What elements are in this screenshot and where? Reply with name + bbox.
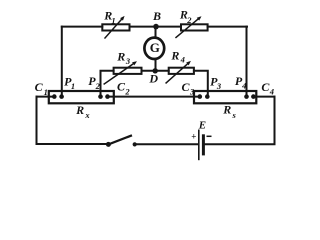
terminal C3 dot bbox=[198, 94, 203, 99]
wire galvanometer to node D bbox=[155, 59, 157, 71]
svg-text:4: 4 bbox=[241, 81, 246, 91]
wire rail R3 to R4 through node D bbox=[142, 70, 169, 72]
resistor R1 body bbox=[102, 24, 129, 30]
arrowhead of R2 arrow bbox=[197, 16, 202, 20]
wire top-right segment R2 to P4 corner bbox=[208, 26, 247, 28]
label P4 bbox=[235, 74, 246, 91]
svg-text:1: 1 bbox=[111, 15, 115, 25]
svg-text:s: s bbox=[232, 110, 237, 120]
label R2 bbox=[179, 8, 192, 25]
terminal P2 dot bbox=[98, 94, 103, 99]
wire C1 stub bbox=[37, 96, 55, 98]
battery minus sign bbox=[207, 135, 212, 137]
arrowhead of R4 arrow bbox=[186, 61, 191, 66]
resistor R3 body bbox=[114, 68, 142, 74]
resistor R1 arrow bbox=[105, 18, 123, 38]
galvanometer G body bbox=[144, 38, 164, 59]
switch contact dot bbox=[133, 142, 137, 146]
arrowhead of R3 arrow bbox=[132, 61, 137, 65]
svg-text:2: 2 bbox=[124, 86, 130, 96]
svg-text:3: 3 bbox=[189, 87, 195, 97]
svg-text:R: R bbox=[222, 103, 231, 117]
terminal C1 dot bbox=[52, 94, 57, 99]
arrowhead of R1 arrow bbox=[120, 16, 124, 21]
wire left drop C1 to bottom rail bbox=[36, 97, 38, 144]
svg-text:R: R bbox=[170, 48, 179, 62]
svg-text:4: 4 bbox=[269, 87, 274, 97]
svg-text:R: R bbox=[116, 49, 125, 63]
resistor R3 arrow bbox=[104, 63, 135, 84]
label C4 bbox=[261, 80, 274, 97]
label Rs bbox=[222, 103, 236, 120]
label R4 bbox=[170, 48, 184, 64]
wire bottom-left segment to switch bbox=[37, 143, 109, 145]
wire right drop C4 to bottom rail bbox=[274, 97, 276, 144]
wire switch to battery bbox=[135, 143, 198, 145]
label R1 bbox=[103, 8, 115, 25]
wire C2 to C3 bbox=[108, 96, 200, 98]
battery E negative plate (short thick) bbox=[202, 136, 205, 154]
wire P4 vertical (top-right corner down to P4 terminal) bbox=[246, 27, 248, 97]
svg-text:C: C bbox=[35, 80, 44, 94]
label C1 bbox=[35, 80, 48, 97]
svg-text:R: R bbox=[75, 103, 84, 117]
wire B to galvanometer bbox=[155, 27, 157, 38]
switch lever bbox=[108, 136, 130, 145]
svg-text:E: E bbox=[198, 119, 206, 131]
resistor R4 body bbox=[169, 68, 194, 74]
svg-text:3: 3 bbox=[216, 81, 222, 91]
svg-text:2: 2 bbox=[186, 15, 192, 25]
terminal P4 dot bbox=[244, 94, 249, 99]
terminal C2 dot bbox=[105, 94, 110, 99]
wire R4 to P3 vertical bbox=[194, 71, 208, 97]
resistor R4 arrow bbox=[166, 63, 189, 83]
wire battery to right corner bbox=[205, 143, 275, 145]
label Rx bbox=[75, 103, 90, 120]
resistor R2 arrow bbox=[176, 18, 200, 38]
svg-text:3: 3 bbox=[125, 56, 131, 66]
svg-text:x: x bbox=[84, 110, 90, 120]
node B bbox=[153, 24, 159, 30]
label R3 bbox=[116, 49, 131, 65]
wire top middle segment R1 to R2 through node B bbox=[130, 26, 182, 28]
label P1 bbox=[64, 74, 75, 90]
terminal P3 dot bbox=[205, 94, 210, 99]
battery E positive plate (long thin) bbox=[198, 130, 200, 159]
node D bbox=[153, 68, 158, 73]
terminal P1 dot bbox=[59, 94, 64, 99]
four-terminal resistor Rs body bbox=[194, 91, 256, 103]
label C3 bbox=[182, 80, 196, 97]
label P3 bbox=[210, 74, 222, 91]
wire C4 stub bbox=[253, 96, 274, 98]
terminal C4 dot bbox=[251, 94, 256, 99]
wire top-left segment from P1 corner to R1 bbox=[62, 26, 103, 28]
four-terminal resistor Rx body bbox=[49, 91, 114, 103]
svg-text:+: + bbox=[191, 131, 196, 141]
svg-text:1: 1 bbox=[44, 87, 48, 97]
svg-text:2: 2 bbox=[95, 81, 101, 91]
svg-text:1: 1 bbox=[71, 81, 75, 91]
svg-text:G: G bbox=[150, 40, 160, 55]
label C2 bbox=[117, 80, 130, 97]
resistor R2 body bbox=[181, 24, 208, 30]
wire P1 vertical (top-left corner down to P1 terminal) bbox=[61, 27, 63, 97]
svg-text:D: D bbox=[148, 71, 158, 85]
label P2 bbox=[88, 74, 100, 91]
svg-text:4: 4 bbox=[180, 55, 185, 65]
switch pivot dot bbox=[106, 142, 111, 147]
wire P2 vertical and link to R3 bbox=[101, 71, 114, 97]
svg-text:B: B bbox=[152, 9, 161, 23]
